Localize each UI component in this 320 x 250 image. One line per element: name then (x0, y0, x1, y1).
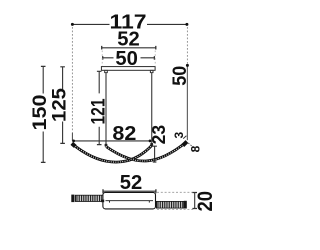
right arc braid stripes (106, 142, 187, 161)
side view: left notch (101, 200, 104, 203)
left arc braid stripes (72, 144, 152, 163)
dim 52 top end ticks (102, 46, 156, 50)
dim 8 dashes (188, 143, 192, 146)
left arc tube (72, 144, 152, 163)
svg-text:82: 82 (112, 123, 136, 145)
side view: body seam (106, 200, 154, 202)
dim 121 line (98, 71, 100, 144)
dim 20 line (194, 193, 196, 209)
dim 50 right dot (186, 64, 189, 67)
svg-text:8: 8 (189, 145, 203, 152)
canopy right cable grip (150, 70, 153, 72)
dim 82 line (73, 140, 150, 142)
dim 50 top line (103, 57, 155, 59)
extension dashed canopy left (101, 51, 103, 67)
side view: right rod end cap (184, 201, 187, 209)
side view: left rod end cap (71, 195, 74, 203)
dim 3 tick (183, 136, 186, 139)
dim 150 ticks (41, 66, 46, 162)
svg-text:52: 52 (120, 172, 143, 194)
extension dashed left x=72.4 (71, 27, 73, 133)
svg-text:50: 50 (170, 66, 191, 86)
dim 50 right vertical (186, 66, 188, 141)
dim 52 bottom ticks (103, 189, 156, 193)
dim 117 line (72, 23, 187, 25)
side view: left rod knurl (75, 195, 103, 201)
side view: body (103, 192, 156, 209)
canopy (101, 67, 155, 71)
svg-text:150: 150 (30, 95, 51, 131)
dim 125 ticks (60, 67, 65, 144)
left cable (105, 73, 107, 144)
dim 20 ext dashed bottom (157, 209, 195, 211)
dim 82 end dots (72, 140, 75, 143)
svg-text:23: 23 (149, 125, 169, 145)
dim 50 top end ticks (103, 56, 155, 60)
dim 117 end dots (71, 23, 74, 26)
canopy left cable grip (105, 70, 108, 72)
right arc right end cap (183, 142, 187, 146)
left arc left end cap (72, 143, 75, 146)
svg-text:121: 121 (88, 98, 109, 124)
side view: dim 52 bottom line (103, 190, 156, 192)
right cable end fitting (150, 143, 153, 146)
dim 23 ticks (152, 146, 157, 162)
dim 121 ticks (97, 71, 102, 144)
side view: seam tick right (148, 201, 150, 203)
extension dashed right x=187.4 upper (186, 27, 188, 64)
dim 52 top line (102, 47, 156, 49)
dim 20 ticks (192, 193, 197, 209)
svg-text:3: 3 (172, 132, 186, 139)
dim 150 line (42, 66, 44, 162)
extension dashed canopy right (154, 51, 156, 67)
dim 23 line (154, 146, 156, 162)
svg-text:20: 20 (194, 191, 217, 212)
side view: right rod knurl (156, 201, 183, 208)
svg-text:125: 125 (50, 88, 71, 122)
left cable end fitting (105, 144, 108, 147)
right arc tube (106, 142, 187, 161)
right cable (151, 73, 153, 143)
dim 20 ext dashed top (157, 191, 195, 193)
side view: seam tick left (109, 201, 111, 203)
dim 125 line (62, 67, 64, 144)
